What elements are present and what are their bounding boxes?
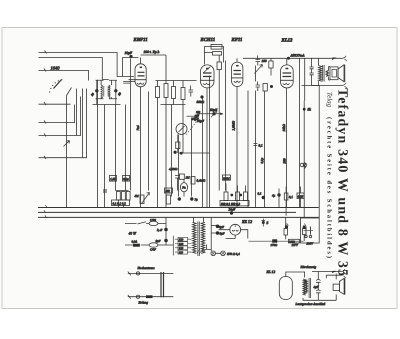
svg-text:0,1: 0,1: [259, 144, 264, 148]
resistor R22: [284, 193, 288, 200]
wire vertical x130: [130, 59, 132, 191]
wire vertical right boundary x318.7: [318, 86, 320, 219]
wire vertical x171: [171, 105, 173, 197]
gang dotted line: [187, 122, 197, 135]
tube V1 internal electrodes: [138, 72, 145, 76]
mains plug box: [301, 218, 320, 243]
svg-text:(rechte Seite des Schaltbildes: (rechte Seite des Schaltbildes): [326, 117, 333, 258]
resistor R10: [217, 62, 221, 70]
mains switch line: [125, 222, 166, 224]
svg-text:10pF: 10pF: [125, 51, 133, 55]
hookup bottom wire: [128, 296, 174, 298]
dial dotted arc: [50, 80, 64, 93]
svg-text:0,1μ: 0,1μ: [123, 177, 129, 181]
wire grid pair: [123, 82, 135, 84]
dial lamp L2: [221, 251, 226, 256]
capacitor 8uF a: [216, 225, 220, 229]
voltage selector bar: [166, 236, 173, 256]
svg-text:100: 100: [262, 59, 267, 63]
wire vertical x219: [218, 76, 220, 191]
wire vertical x209: [209, 76, 211, 209]
wire grid coupling: [121, 58, 123, 77]
svg-text:40pF: 40pF: [192, 117, 200, 121]
T1 core: [198, 222, 199, 257]
wire speaker verticals down: [302, 85, 320, 87]
svg-text:Hörabzweig: Hörabzweig: [300, 265, 317, 269]
svg-text:670 Ω 0,4: 670 Ω 0,4: [227, 252, 240, 256]
resistor 170 blob: [272, 239, 277, 242]
svg-text:1,5k: 1,5k: [110, 177, 116, 181]
resistor R4 between V1/V2: [156, 87, 160, 98]
band switch stub 3: [39, 97, 81, 136]
wire rectifier: [211, 218, 248, 247]
svg-text:Tefadyn 340 W und 8 W 35: Tefadyn 340 W und 8 W 35: [335, 88, 350, 276]
bus tick labels: [44, 205, 47, 218]
tube V4 internals: [283, 73, 292, 77]
switch blade: [137, 222, 146, 224]
capacitor blob left: [95, 89, 98, 92]
capacitor blob 800: [200, 95, 203, 98]
svg-text:EF11: EF11: [231, 37, 243, 43]
svg-text:0,8A: 0,8A: [132, 240, 138, 244]
svg-text:20k: 20k: [165, 189, 170, 193]
bus line 1: [38, 207, 319, 209]
wire vertical x104: [104, 105, 106, 209]
svg-text:50pF: 50pF: [210, 108, 218, 112]
trimmer arrow: [255, 65, 263, 74]
resistor R20: [236, 192, 240, 201]
transformer core bottom: [309, 278, 310, 298]
switch wiper contact: [67, 88, 72, 101]
tube V3 EF11 envelope: [232, 62, 243, 86]
svg-text:0,1: 0,1: [258, 192, 262, 196]
terminal hook bottom: [343, 83, 348, 88]
tube V3 internals: [234, 71, 241, 75]
wire jack: [183, 179, 185, 196]
wire V2 cathode to bus: [206, 88, 208, 208]
svg-text:3,-F: 3,-F: [157, 228, 162, 232]
svg-text:4M: 4M: [135, 194, 140, 198]
resistor R9 boxed: [213, 52, 222, 56]
resistor R7: [181, 88, 185, 100]
top coupling bus wire: [243, 57, 288, 59]
AVC arrow on left vertical: [64, 141, 70, 147]
tube V2 internals: [203, 73, 212, 77]
wire vertical x96 to bus: [97, 80, 99, 208]
variable capacitor 50pF: [199, 113, 223, 115]
wire osc to bus: [178, 135, 210, 154]
svg-text:40 W: 40 W: [129, 232, 137, 236]
svg-text:50k 0,1 50k 0,3: 50k 0,1 50k 0,3: [221, 202, 240, 206]
svg-text:8μF: 8μF: [156, 239, 161, 243]
output transformer bottom primary: [303, 279, 306, 295]
svg-text:Telag: Telag: [326, 92, 334, 108]
tube V2 ECH11 envelope: [201, 65, 215, 88]
svg-text:0,1μ: 0,1μ: [260, 158, 264, 164]
IF coil L2: [109, 85, 110, 98]
capacitor 4u blob: [277, 193, 280, 196]
speaker frame: [330, 67, 338, 80]
heater wire: [249, 240, 304, 242]
band switch stub 1: [39, 103, 71, 105]
svg-text:4,0MΩ: 4,0MΩ: [169, 167, 178, 171]
resistor R16: [126, 192, 130, 201]
wires res mid: [226, 184, 246, 193]
wire vertical x225: [225, 61, 227, 191]
wire coil stems: [101, 80, 111, 99]
svg-text:C/06: C/06: [150, 218, 156, 222]
capacitor blob left: [103, 190, 107, 192]
junction hum a: [285, 225, 288, 228]
T2 core: [323, 65, 324, 82]
wire vertical x82: [82, 89, 84, 159]
capacitor 8uF b: [216, 231, 220, 235]
svg-text:Erdung: Erdung: [138, 300, 149, 304]
pickup jack TA: [180, 183, 187, 192]
resistor R5: [164, 84, 168, 98]
T1 tap labels boxed: [178, 237, 188, 241]
junction dot anode: [287, 57, 290, 60]
capacitor C2: [189, 86, 194, 97]
wire anode rail to output transformer: [288, 57, 343, 59]
trimmer component: [140, 195, 144, 204]
wire hookup top rails: [312, 272, 342, 280]
boxed label 0,3M: [223, 175, 231, 180]
wire tube V1 cathode to bus: [129, 80, 141, 208]
svg-text:10kΩ: 10kΩ: [282, 124, 286, 132]
svg-text:800Ω: 800Ω: [197, 100, 205, 104]
terminal hook top: [343, 56, 348, 61]
svg-text:4μF: 4μF: [314, 285, 319, 289]
capacitor 3,5u: [164, 228, 168, 232]
wire lamps: [207, 245, 221, 254]
boxed label 0,1: [123, 176, 130, 182]
resistor R15: [122, 192, 126, 201]
dial lamp L1: [211, 251, 216, 256]
speaker bottom magnet: [333, 284, 339, 290]
band switch stub 2: [39, 105, 75, 123]
switch arm diagonal: [54, 80, 62, 89]
capacitor blob right: [262, 196, 265, 199]
wire hookup bottom: [303, 295, 336, 301]
svg-text:7μ: 7μ: [195, 198, 199, 202]
svg-text:Lautsprecher-Anschluß: Lautsprecher-Anschluß: [295, 302, 326, 306]
junction hum b: [303, 226, 306, 229]
resistor R8 boxed 0,5M: [211, 45, 222, 50]
wire V3 cathode to bus: [236, 58, 238, 208]
junction dots: [230, 194, 233, 197]
oscillator feedback box wiring: [205, 47, 224, 65]
wire C with 1640 label: [39, 71, 89, 81]
speaker cone: [338, 65, 344, 82]
resistor R11: [269, 61, 273, 68]
svg-text:5k: 5k: [308, 108, 312, 112]
wire vertical x178: [178, 135, 180, 197]
capacitor 10pF top-cap: [129, 55, 132, 58]
resistor R14: [117, 192, 121, 201]
rectifier EZ12: [230, 224, 241, 235]
resistor R6: [172, 87, 176, 99]
svg-text:0,1 0,1 0,2: 0,1 0,1 0,2: [113, 201, 127, 205]
wire V4 to bus: [287, 58, 305, 208]
bus line 2: [38, 211, 296, 213]
junction blob mid: [174, 151, 177, 154]
capacitor 4uF: [316, 272, 320, 296]
wire vertical x165: [165, 111, 167, 209]
tube EL12 bottom envelope: [279, 277, 292, 300]
wire vertical x76: [76, 89, 78, 136]
wire tube top: [286, 272, 305, 278]
speaker bottom cone: [339, 278, 344, 294]
capacitor C3: [256, 56, 261, 66]
band switch stub 4: [39, 89, 87, 158]
wire transformer connections: [319, 58, 331, 85]
svg-text:0,35: 0,35: [298, 195, 304, 199]
T1 secondary winding: [201, 222, 205, 253]
capacitor C4: [256, 82, 261, 92]
svg-text:1640: 1640: [51, 66, 61, 71]
svg-text:170Ω: 170Ω: [271, 243, 279, 247]
wire switch vertical: [165, 218, 167, 246]
junction dot: [270, 85, 273, 88]
tube V1 EBF11 envelope: [135, 64, 146, 87]
wire vertical x115: [115, 105, 117, 191]
transformer T1 primary winding: [193, 222, 197, 253]
wire between V3 V4: [248, 66, 265, 209]
bus line 3: [38, 216, 319, 218]
wire filter sides: [89, 80, 121, 104]
resistor R25: [179, 174, 184, 179]
wire vertical x303.7 with dot: [303, 101, 305, 219]
svg-text:100 t. Fp.h: 100 t. Fp.h: [144, 50, 160, 54]
svg-text:EL 12: EL 12: [266, 270, 276, 274]
terminal hook b: [342, 273, 347, 278]
plug prongs: [306, 227, 311, 235]
wire vertical x191: [191, 118, 193, 197]
resistor right: [303, 229, 306, 235]
wire A (antenna top line): [39, 53, 135, 77]
T2 secondary zigzag: [326, 71, 328, 77]
capacitor 0,1: [254, 144, 258, 146]
svg-text:1M: 1M: [186, 176, 191, 180]
svg-text:Hochantenne: Hochantenne: [137, 266, 156, 270]
svg-text:ECH11: ECH11: [200, 37, 216, 43]
wire V4 top cap: [286, 58, 288, 65]
svg-text:8μF: 8μF: [220, 232, 225, 236]
boxed labels row mid: [220, 201, 249, 206]
IF filter F1 rails: [96, 80, 118, 99]
node A tick: [45, 51, 47, 54]
capacitor blob2: [190, 197, 193, 200]
output transformer T2 primary zigzag: [319, 66, 322, 82]
svg-text:0,1: 0,1: [289, 195, 293, 199]
wire top cap: [122, 55, 166, 81]
capacitor 2u: [175, 176, 180, 191]
T1 tap wires: [175, 239, 192, 252]
wire vertical x202: [202, 99, 204, 209]
wire vertical x182: [182, 105, 184, 154]
svg-text:EZ 12: EZ 12: [241, 219, 252, 224]
svg-text:20μF: 20μF: [229, 208, 236, 212]
mains choke coil: [304, 163, 305, 169]
boxed label 1,5k: [110, 176, 117, 182]
svg-text:EL12: EL12: [281, 38, 294, 44]
svg-text:C/07: C/07: [150, 248, 156, 252]
capacitor blob right: [114, 89, 117, 92]
arrowhead blob on rail: [332, 58, 337, 61]
hatch ground: [197, 249, 207, 254]
resistor 240 box: [289, 239, 300, 243]
wire T1 top: [194, 218, 204, 223]
resistor blob R13: [176, 142, 180, 149]
trimmer arrow 2 with blob: [194, 115, 197, 118]
resistor 40: [284, 229, 287, 236]
resistor R17: [166, 195, 170, 204]
svg-text:0,3M: 0,3M: [223, 176, 230, 180]
fuse bubble C06: [149, 221, 158, 225]
svg-text:Fu: Fu: [181, 186, 186, 190]
capacitor blob: [178, 197, 181, 200]
resistor R19: [224, 192, 228, 201]
capacitor C5 tone: [310, 58, 314, 85]
wire vertical x148: [148, 92, 150, 191]
svg-text:EBF11: EBF11: [133, 37, 148, 43]
boxed labels row: [112, 200, 130, 205]
svg-text:380: 380: [282, 158, 286, 163]
terminal hook a: [342, 269, 347, 274]
svg-text:1,0MΩ: 1,0MΩ: [232, 120, 236, 130]
svg-text:ANU/7mA: ANU/7mA: [290, 54, 306, 58]
bottom rail: [312, 84, 343, 86]
resistor R21: [244, 192, 248, 201]
IF coil L1: [101, 85, 102, 98]
resistor R12: [263, 84, 267, 92]
resistor R18: [191, 177, 195, 185]
capacitor 8uF: [164, 239, 168, 243]
junction 5: [262, 221, 265, 224]
boxed label 0,35: [297, 193, 304, 199]
tube V4 EL12 envelope: [281, 65, 294, 88]
fuse bubble C07: [149, 243, 158, 247]
svg-text:4μ: 4μ: [272, 194, 276, 198]
svg-text:8μF: 8μF: [219, 225, 224, 229]
wire vertical x125: [125, 105, 127, 191]
arrowhead blob: [332, 271, 337, 273]
wire vertical x157: [157, 105, 159, 209]
wire resistor row 2 top: [156, 81, 197, 105]
hookup top wire: [128, 272, 174, 274]
wire B: [39, 58, 109, 80]
svg-text:5: 5: [267, 221, 269, 225]
lower switch line: [125, 244, 166, 246]
wire res row: [116, 191, 129, 209]
output transformer bottom secondary: [305, 280, 307, 293]
svg-text:0,4MΩ: 0,4MΩ: [197, 179, 206, 183]
capacitor 20uF: [230, 211, 233, 214]
wire vertical from switch to bus: [66, 101, 68, 209]
svg-text:7n4: 7n4: [136, 125, 140, 130]
svg-text:110: 110: [179, 250, 184, 254]
oscillator padder circle: [176, 124, 187, 135]
hookup vertical double line: [161, 272, 164, 297]
